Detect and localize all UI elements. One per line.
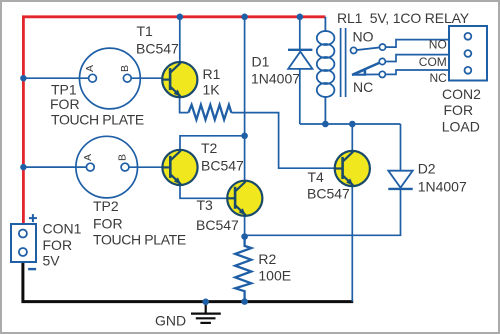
svg-text:BC547: BC547: [307, 186, 350, 202]
wire COM contact to CON2: [382, 55, 449, 62]
wire T4 collector to bus: [351, 124, 353, 152]
svg-text:T4: T4: [308, 169, 325, 185]
svg-text:CON2: CON2: [442, 86, 481, 102]
svg-text:FOR: FOR: [43, 237, 73, 253]
wire T2 emitter to T3 base: [180, 185, 236, 199]
wire NC contact to CON2: [382, 70, 449, 74]
svg-text:A: A: [82, 154, 94, 161]
svg-text:NO: NO: [353, 28, 374, 44]
wire NO contact to CON2: [383, 40, 450, 48]
svg-text:100E: 100E: [258, 267, 291, 283]
node rail/T1 collector: [177, 13, 184, 20]
wire T4 emitter to ground rail: [351, 186, 353, 302]
wire +5V red rail: [23, 17, 325, 224]
svg-text:BC547: BC547: [136, 40, 179, 56]
relay contact terminal circles: [351, 44, 386, 78]
svg-text:5V: 5V: [43, 253, 61, 269]
svg-text:LOAD: LOAD: [442, 119, 480, 135]
svg-text:D1: D1: [252, 54, 270, 70]
relay NC fixed contact lead: [352, 73, 382, 75]
svg-text:NC: NC: [429, 71, 447, 85]
touch plate TP2: [76, 136, 138, 198]
relay RL1 coil: [317, 17, 335, 124]
wire TP2-B to T2 base: [127, 166, 172, 168]
svg-text:NO: NO: [429, 38, 447, 52]
node +5V/TP1 junction: [20, 75, 26, 81]
svg-text:BC547: BC547: [201, 158, 244, 174]
svg-text:T1: T1: [137, 23, 154, 39]
wire TP1-A to +5V rail: [23, 77, 90, 79]
svg-text:1N4007: 1N4007: [418, 179, 467, 195]
plus sign (CON1): [29, 214, 37, 222]
wire D1 anode down: [299, 69, 301, 124]
svg-text:A: A: [84, 65, 96, 72]
svg-text:B: B: [119, 65, 131, 72]
diode D1: [288, 50, 312, 69]
node coil bottom junction: [322, 121, 329, 128]
svg-text:CON1: CON1: [43, 221, 82, 237]
svg-text:TP2: TP2: [93, 198, 119, 214]
svg-text:GND: GND: [155, 313, 186, 329]
transistor T4: [335, 151, 370, 186]
node T3 emitter/R2/D2 junction: [241, 233, 248, 240]
svg-text:R1: R1: [203, 66, 221, 82]
node GND tap: [202, 299, 209, 306]
connector CON2: [449, 26, 487, 81]
resistor R1: [189, 105, 232, 120]
connector CON1: [11, 224, 36, 262]
svg-text:1N4007: 1N4007: [251, 71, 300, 87]
transistor T2: [162, 150, 197, 185]
svg-text:T2: T2: [201, 140, 218, 156]
svg-text:B: B: [117, 154, 129, 161]
node +5V/TP2 junction: [20, 164, 26, 170]
relay RL1 core bars: [341, 28, 346, 97]
wire T1 emitter to R1: [180, 97, 189, 113]
wire T3 emitter to node: [244, 216, 246, 237]
svg-text:R2: R2: [258, 251, 276, 267]
svg-text:D2: D2: [418, 160, 436, 176]
relay NO fixed contact lead: [354, 47, 383, 50]
wire coil-bottom bus: [300, 123, 401, 125]
svg-text:FOR: FOR: [444, 102, 474, 118]
svg-text:TOUCH PLATE: TOUCH PLATE: [93, 231, 186, 247]
node rail/T3 collector: [241, 13, 248, 20]
touch plate TP1: [80, 48, 141, 109]
svg-text:1K: 1K: [203, 82, 221, 98]
wire rail to T3 collector: [244, 17, 246, 182]
wire T1 collector to rail: [179, 17, 181, 63]
wire bus to D2: [400, 124, 402, 171]
svg-text:COM: COM: [419, 55, 447, 69]
wire TP2-A to +5V rail: [23, 166, 88, 168]
wire D2 cathode to R2 top node: [245, 189, 401, 235]
node R2/ground rail: [241, 298, 248, 305]
node T4 collector junction: [349, 121, 356, 128]
relay COM arm wedge: [352, 69, 366, 76]
wire R1 to T4 base: [231, 113, 335, 169]
diode D2: [388, 171, 412, 189]
transistor T1: [162, 62, 197, 97]
svg-text:NC: NC: [353, 79, 373, 95]
node T2 collector junction: [241, 133, 248, 140]
minus sign (CON1): [28, 268, 36, 270]
wire D1 branch from rail: [299, 17, 301, 50]
wire T2 collector to node: [180, 136, 245, 151]
svg-text:RL1 5V, 1CO RELAY: RL1 5V, 1CO RELAY: [337, 10, 470, 26]
node rail/D1: [297, 13, 304, 20]
ground symbol: [191, 303, 221, 323]
svg-text:T3: T3: [197, 197, 214, 213]
svg-text:FOR: FOR: [50, 96, 80, 112]
resistor R2: [235, 237, 251, 302]
relay COM arm: [352, 62, 382, 75]
wire ground rail (black): [23, 261, 353, 302]
svg-text:FOR: FOR: [93, 215, 123, 231]
wire TP1-B to T1 base: [129, 77, 171, 79]
transistor T3: [227, 181, 262, 216]
svg-text:BC547: BC547: [196, 217, 239, 233]
svg-text:TOUCH PLATE: TOUCH PLATE: [51, 111, 144, 127]
